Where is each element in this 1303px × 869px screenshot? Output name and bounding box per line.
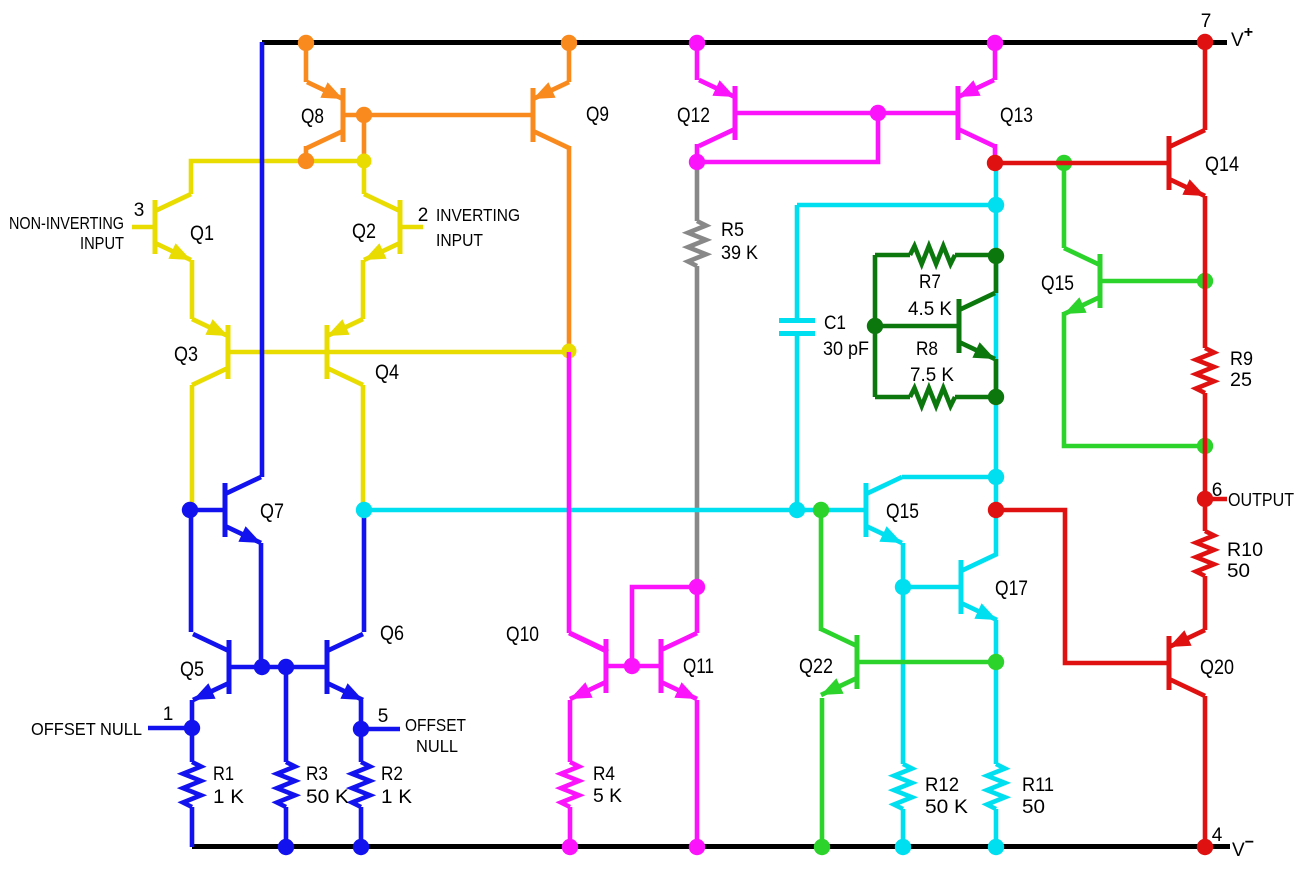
- wire Q2 collector up: [362, 163, 367, 194]
- svg-text:50 K: 50 K: [306, 787, 349, 808]
- svg-text:Q2: Q2: [352, 220, 376, 243]
- node Q22 collector on bus: [813, 502, 829, 518]
- wire R1 top lead: [190, 728, 195, 762]
- svg-text:INPUT: INPUT: [436, 230, 483, 250]
- svg-text:R11: R11: [1022, 775, 1054, 796]
- wire Q7 emitter down: [259, 543, 264, 665]
- svg-text:2: 2: [418, 205, 429, 226]
- svg-text:Q13: Q13: [1000, 104, 1033, 127]
- wire Q7 collector to V+: [260, 42, 265, 477]
- svg-text:Q5: Q5: [180, 658, 204, 681]
- wire Q16 base lead: [875, 324, 957, 329]
- transistor Q14: [1169, 130, 1205, 196]
- svg-text:7.5 K: 7.5 K: [910, 365, 954, 386]
- wire Q6 emitter to offset null 5: [359, 700, 364, 729]
- wire C1 bottom plate lead: [795, 336, 800, 510]
- svg-text:6: 6: [1212, 480, 1223, 501]
- wire R3 top lead: [284, 667, 289, 762]
- node Q12 V+ junction: [689, 35, 705, 51]
- wire Q3/Q4 base line: [230, 350, 569, 355]
- svg-text:Q4: Q4: [375, 361, 399, 384]
- svg-text:30 pF: 30 pF: [823, 339, 869, 360]
- node Q9 V+ junction: [561, 35, 577, 51]
- node Q1/Q2 collector tie: [357, 154, 372, 169]
- svg-text:3: 3: [134, 200, 145, 221]
- wire Q10/Q11 base line: [608, 664, 659, 669]
- svg-text:R7: R7: [919, 272, 941, 293]
- wire Q15 collector link: [902, 475, 996, 480]
- node Q20 base junction: [988, 502, 1004, 518]
- wire Q8 base tie down: [362, 115, 367, 157]
- node Q5/Q7 base-emitter junction: [254, 659, 270, 675]
- wire Q16 emitter down: [994, 359, 999, 397]
- wire Q9 collector down: [567, 146, 572, 350]
- svg-text:R9: R9: [1230, 349, 1253, 370]
- wire Q15 emitter down: [1064, 312, 1203, 446]
- wire R7 right lead: [955, 253, 996, 258]
- svg-text:1: 1: [163, 704, 174, 725]
- wire Q5/Q6 base line: [231, 665, 325, 670]
- wire Q10 collector column: [567, 352, 572, 633]
- resistor R5: [688, 221, 706, 266]
- transistor Q5: [193, 634, 229, 700]
- svg-text:Q12: Q12: [677, 104, 710, 127]
- wire Q2 emitter to Q4: [361, 260, 366, 319]
- wire R3 bottom lead: [284, 807, 289, 847]
- wire Q10 emitter down: [568, 700, 573, 762]
- wire Q11 collector up: [695, 589, 700, 633]
- svg-text:Q15: Q15: [886, 500, 919, 523]
- wire Q1 emitter to Q3: [190, 260, 195, 319]
- svg-text:INPUT: INPUT: [80, 233, 124, 253]
- wire R7 left lead: [875, 253, 910, 258]
- svg-text:Q9: Q9: [586, 103, 609, 126]
- resistor R9: [1196, 348, 1214, 393]
- transistor Q13: [958, 80, 994, 146]
- node Q7 base junction: [182, 502, 198, 518]
- wire Q15 emitter down: [901, 543, 906, 764]
- wire Q20 collector to V-: [1203, 696, 1208, 847]
- wire offset null 1 tick: [148, 726, 190, 731]
- svg-text:R1: R1: [213, 764, 234, 785]
- svg-text:R10: R10: [1227, 540, 1263, 561]
- wire R9 to output: [1203, 393, 1208, 531]
- node Q8 base junction: [356, 107, 372, 123]
- wire Q12/Q13 base line: [737, 111, 956, 116]
- svg-text:Q10: Q10: [506, 623, 539, 646]
- wire R7/R8 left column: [873, 255, 878, 397]
- node R4 ground: [562, 839, 578, 855]
- node Q22 emitter ground: [814, 839, 830, 855]
- node R8 right junction: [988, 389, 1004, 405]
- wire Q12 emitter from V+: [695, 42, 700, 80]
- transistor Q16: [959, 293, 995, 359]
- wire Q14 collector to V+: [1203, 42, 1208, 130]
- svg-text:7: 7: [1201, 11, 1212, 32]
- node R2 ground: [353, 839, 369, 855]
- wire R2 bottom lead: [359, 807, 364, 847]
- svg-text:R2: R2: [381, 764, 403, 785]
- node R3 ground: [278, 839, 294, 855]
- resistor R11: [987, 764, 1005, 809]
- svg-text:Q1: Q1: [190, 222, 214, 245]
- node Q16 base junction: [867, 318, 883, 334]
- transistor Q2: [364, 194, 400, 260]
- transistor Q12: [699, 80, 735, 146]
- node Q10/Q11 base junction: [624, 658, 640, 674]
- wire Q7 base lead: [190, 508, 223, 513]
- capacitor C1: [779, 321, 815, 334]
- node R3 base junction: [278, 659, 294, 675]
- node Q15 collector junction: [988, 469, 1004, 485]
- wire Q10 collector diag link: [569, 633, 608, 652]
- wire Q13-Q14 base line: [995, 161, 1167, 166]
- wire Q11 emitter down: [695, 700, 700, 847]
- svg-text:Q20: Q20: [1200, 656, 1234, 679]
- svg-text:R5: R5: [721, 220, 744, 241]
- wire Q5 emitter to offset null 1: [190, 700, 195, 728]
- wire R8 right lead: [955, 395, 996, 400]
- wire R10 to Q20: [1203, 576, 1208, 630]
- wire C1 top plate lead: [795, 205, 800, 318]
- svg-text:OFFSET NULL: OFFSET NULL: [31, 719, 142, 739]
- wire Q17 base lead: [905, 585, 959, 590]
- wire R1 bottom lead: [190, 807, 195, 847]
- transistor Q9: [533, 82, 569, 148]
- node R7 right junction: [988, 248, 1004, 264]
- wire Q15 collector up: [1062, 165, 1067, 248]
- node Q15 emitter / Q17 base: [895, 579, 911, 595]
- wire Q2 base tick pin 2: [402, 225, 423, 230]
- svg-text:R8: R8: [916, 339, 938, 360]
- svg-text:4.5 K: 4.5 K: [908, 299, 952, 320]
- node Q8 V+ junction: [298, 35, 314, 51]
- wire output tick pin 6: [1205, 497, 1227, 502]
- wire Q1 base tick pin 3: [132, 225, 153, 230]
- node Q4/Q9 collector tie: [562, 344, 577, 359]
- transistor Q20: [1169, 630, 1205, 696]
- svg-text:Q11: Q11: [683, 655, 714, 678]
- wire Q17 emitter down: [994, 620, 999, 764]
- node V+ pin 7: [1197, 34, 1213, 50]
- node Q6 collector / bus: [356, 502, 372, 518]
- svg-text:Q17: Q17: [995, 577, 1028, 600]
- node R11 ground: [988, 839, 1004, 855]
- wire Q13 collector down: [993, 144, 998, 160]
- wire Q8/Q9 base line: [345, 113, 531, 118]
- node Q22 base / Q17 emitter: [988, 654, 1004, 670]
- node output pin 6: [1197, 491, 1213, 507]
- wire R12 bottom lead: [901, 809, 906, 847]
- wire Q13 collector column: [994, 163, 999, 556]
- transistor Q11: [661, 633, 697, 699]
- transistor Q17: [961, 554, 997, 620]
- wire V- rail: [192, 844, 1230, 849]
- wire offset null 5 tick: [362, 727, 400, 732]
- svg-text:Q6: Q6: [380, 622, 404, 645]
- node Q15 base junction: [1197, 273, 1213, 289]
- node Q11 emitter ground: [689, 839, 705, 855]
- svg-text:Q7: Q7: [260, 500, 284, 523]
- svg-text:4: 4: [1212, 825, 1223, 846]
- wire Q22 emitter down: [820, 698, 825, 847]
- svg-text:NON‑INVERTING: NON‑INVERTING: [9, 213, 124, 233]
- resistor R7: [910, 246, 955, 264]
- transistor Q8: [307, 82, 343, 148]
- wire Q3 collector down: [190, 385, 195, 507]
- resistor R10: [1196, 531, 1214, 576]
- node Q15 collector junction: [1056, 155, 1072, 171]
- wire R4 bottom lead: [568, 807, 573, 847]
- wire Q16 collector up: [994, 255, 999, 293]
- svg-text:25: 25: [1230, 370, 1252, 391]
- transistor Q1: [155, 194, 191, 260]
- svg-text:Q22: Q22: [799, 655, 833, 678]
- node Q8 collector on input node: [298, 153, 314, 169]
- wire R8 left lead: [875, 395, 910, 400]
- svg-text:NULL: NULL: [416, 736, 458, 756]
- transistor Q4: [327, 319, 363, 385]
- svg-text:Q8: Q8: [301, 105, 324, 128]
- resistor R3: [277, 762, 295, 807]
- svg-text:C1: C1: [824, 313, 846, 334]
- node V- pin 4: [1197, 839, 1213, 855]
- wire Q4 collector down: [361, 385, 366, 508]
- svg-text:Q14: Q14: [1205, 153, 1239, 176]
- node Q13 collector junction: [987, 155, 1003, 171]
- node Q11 collector / R5: [689, 579, 705, 595]
- svg-text:R12: R12: [925, 775, 959, 796]
- svg-text:OUTPUT: OUTPUT: [1228, 490, 1294, 510]
- resistor R4: [561, 762, 579, 807]
- node C1 top junction: [988, 197, 1004, 213]
- svg-text:50 K: 50 K: [925, 797, 968, 818]
- wire Q12 collector down: [695, 144, 700, 160]
- svg-text:1 K: 1 K: [213, 787, 244, 808]
- svg-text:R4: R4: [593, 764, 615, 785]
- svg-text:50: 50: [1227, 561, 1250, 582]
- transistor Q15 center: [866, 477, 902, 543]
- wire Q22 collector up: [819, 512, 824, 631]
- node R12 ground: [895, 839, 911, 855]
- transistor Q10: [570, 633, 606, 699]
- wire R5 top lead: [695, 165, 700, 221]
- resistor R1: [183, 762, 201, 807]
- svg-text:INVERTING: INVERTING: [436, 205, 520, 225]
- svg-text:OFFSET: OFFSET: [405, 715, 466, 735]
- wire Q14 emitter down: [1203, 196, 1208, 348]
- wire Q20 base link: [996, 510, 1167, 663]
- resistor R12: [894, 764, 912, 809]
- svg-text:39 K: 39 K: [721, 243, 758, 264]
- wire Q8 emitter from V+: [304, 42, 309, 82]
- wire C1 top link: [797, 203, 996, 208]
- wire Q12 base-collector tie: [700, 113, 878, 162]
- wire Q9 emitter from V+: [567, 42, 572, 82]
- wire R2 top lead: [359, 729, 364, 762]
- node offset null 1: [184, 720, 200, 736]
- wire Q6 collector up: [362, 512, 367, 632]
- svg-text:R3: R3: [306, 764, 328, 785]
- svg-text:1 K: 1 K: [381, 787, 412, 808]
- svg-text:5 K: 5 K: [593, 786, 622, 807]
- wire Q15 base lead: [1102, 279, 1203, 284]
- transistor Q6: [327, 634, 363, 700]
- node Q15 emitter junction: [1197, 438, 1213, 454]
- wire Q3-Q5 node column: [189, 508, 194, 632]
- wire Q22 base lead: [859, 660, 994, 665]
- svg-text:Q3: Q3: [174, 343, 198, 366]
- node Q12 collector / R5: [689, 154, 705, 170]
- wire R11 bottom lead: [994, 809, 999, 847]
- transistor Q22: [821, 629, 857, 695]
- wire V+ rail: [262, 40, 1227, 45]
- node Q12 base tie: [870, 105, 886, 121]
- wire Q13 emitter from V+: [993, 42, 998, 80]
- wire R5 bottom lead: [695, 266, 700, 585]
- resistor R2: [352, 762, 370, 807]
- transistor Q7: [225, 477, 261, 543]
- node Q13 V+ junction: [987, 35, 1003, 51]
- resistor R8: [910, 388, 955, 406]
- wire Q8 collector down: [304, 146, 309, 158]
- transistor Q15 right: [1064, 248, 1100, 314]
- svg-text:Q15: Q15: [1041, 272, 1074, 295]
- svg-text:50: 50: [1022, 797, 1045, 818]
- node C1 bottom junction: [789, 502, 805, 518]
- wire Q11 base-collector tie: [632, 587, 697, 666]
- transistor Q3: [192, 319, 228, 385]
- node offset null 5: [353, 721, 369, 737]
- wire main cyan bus: [364, 508, 864, 513]
- wire Q1 collector to top node: [191, 161, 364, 194]
- svg-text:5: 5: [378, 706, 389, 727]
